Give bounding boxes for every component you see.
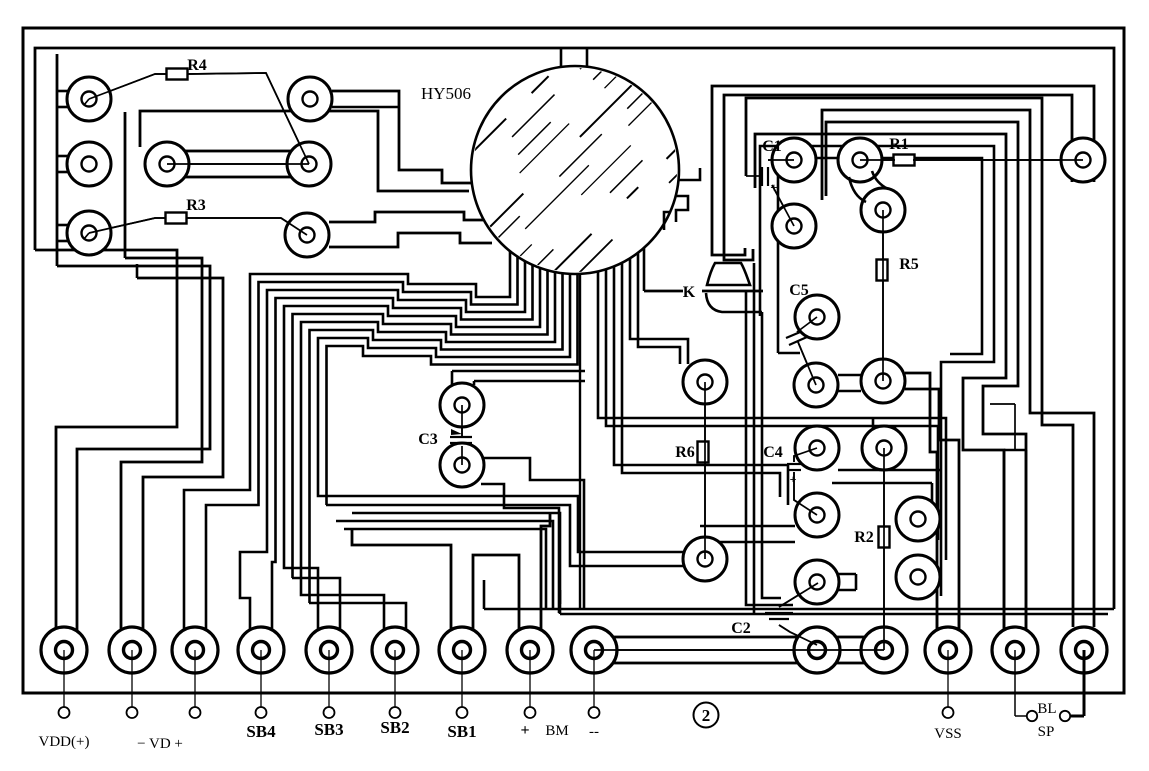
svg-text:R5: R5 [899, 256, 919, 273]
svg-text:+: + [790, 472, 797, 486]
svg-text:BM: BM [545, 723, 568, 739]
svg-text:SB2: SB2 [380, 718, 409, 737]
svg-text:R2: R2 [854, 529, 874, 546]
svg-text:SP: SP [1038, 724, 1055, 740]
svg-text:C2: C2 [731, 620, 751, 637]
svg-text:VSS: VSS [934, 726, 962, 742]
svg-text:+: + [520, 722, 529, 739]
svg-text:SB1: SB1 [447, 722, 476, 741]
svg-text:--: -- [589, 724, 599, 740]
svg-text:C4: C4 [763, 444, 783, 461]
svg-text:K: K [683, 284, 696, 301]
svg-text:C5: C5 [789, 282, 809, 299]
svg-text:R4: R4 [187, 57, 207, 74]
svg-text:SB3: SB3 [314, 720, 343, 739]
svg-text:C1: C1 [762, 138, 782, 155]
svg-text:BL: BL [1037, 701, 1056, 717]
svg-text:R3: R3 [186, 197, 206, 214]
svg-text:R1: R1 [889, 136, 909, 153]
svg-text:R6: R6 [675, 444, 695, 461]
svg-text:− VD +: − VD + [137, 736, 183, 752]
svg-text:C3: C3 [418, 431, 438, 448]
svg-text:SB4: SB4 [246, 722, 276, 741]
svg-text:HY506: HY506 [421, 84, 471, 103]
svg-text:VDD(+): VDD(+) [39, 734, 90, 750]
svg-text:2: 2 [702, 706, 711, 725]
